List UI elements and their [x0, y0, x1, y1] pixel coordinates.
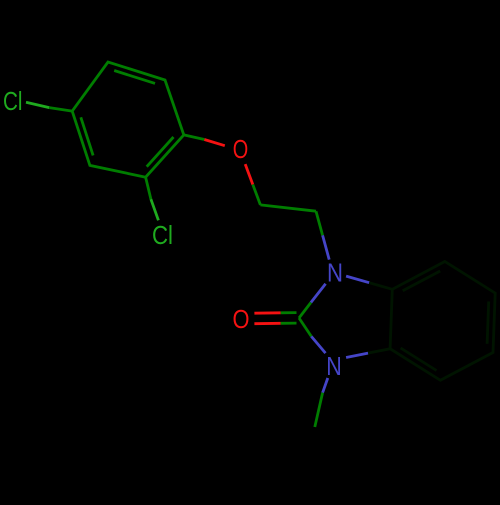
svg-text:N: N: [327, 258, 343, 288]
aromatic inner bond C5=C6 (fused): [487, 301, 489, 343]
bond O1-CH2a: [245, 164, 253, 184]
bond C2-Cl2: [146, 177, 151, 199]
svg-text:N: N: [326, 351, 342, 381]
bond N1-C2: [311, 284, 326, 303]
aromatic inner bond C3=C4: [81, 117, 93, 155]
bond N1-C3a: [346, 276, 369, 283]
svg-text:O: O: [233, 304, 250, 334]
svg-text:Cl: Cl: [152, 220, 173, 250]
aromatic inner bond C7=C7a: [401, 348, 437, 371]
double bond C2=O2 lower line: [254, 322, 280, 325]
double bond C2=O2 upper line: [254, 311, 280, 314]
bond CH2b-N1: [316, 211, 323, 235]
aromatic inner bond C5=C6: [114, 71, 155, 84]
svg-text:Cl: Cl: [3, 86, 23, 116]
bond C1-O1: [184, 135, 205, 140]
bond CH2a-CH2b: [260, 205, 316, 211]
aromatic inner bond C3a=C4: [403, 271, 441, 291]
aromatic inner bond C1=C2: [147, 137, 174, 167]
bond N3-C7a: [346, 353, 368, 357]
bond C4-Cl1: [26, 102, 49, 107]
fused benzo ring C3a-C7a: [390, 262, 495, 381]
benzene ring C1-C6: [72, 62, 184, 177]
bond C2-N3: [299, 318, 311, 336]
svg-text:O: O: [233, 134, 249, 164]
bond N3-CH3 methyl: [323, 378, 328, 393]
